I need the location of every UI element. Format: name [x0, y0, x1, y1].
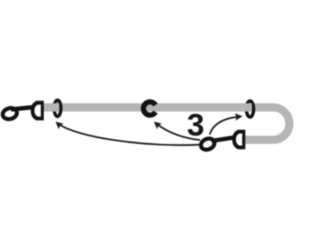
svg-text:3: 3 [187, 107, 205, 143]
